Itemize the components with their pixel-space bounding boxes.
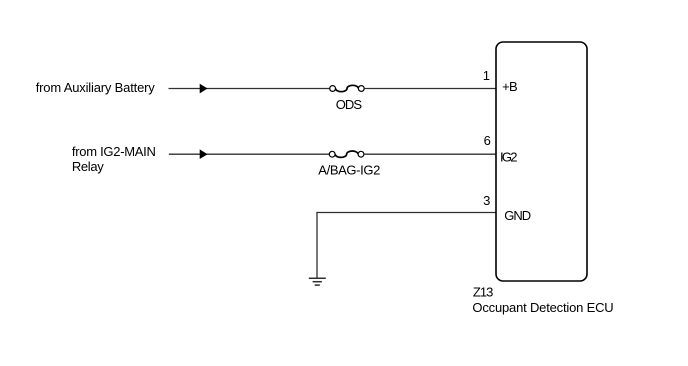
svg-text:Relay: Relay xyxy=(72,159,104,174)
fuse ODS xyxy=(330,85,364,91)
svg-text:GND: GND xyxy=(504,208,531,223)
svg-text:6: 6 xyxy=(484,133,491,148)
wire: ground horizontal run to pin 3 xyxy=(316,212,496,214)
fuse A/BAG-IG2 xyxy=(329,151,364,157)
arrow on +B feed wire xyxy=(200,84,207,93)
svg-text:from Auxiliary Battery: from Auxiliary Battery xyxy=(36,80,156,95)
ground symbol xyxy=(309,278,326,285)
svg-text:IG2: IG2 xyxy=(500,150,518,165)
svg-text:Z13: Z13 xyxy=(473,285,494,300)
wire: Auxiliary Battery feed to fuse ODS xyxy=(169,88,330,90)
svg-text:A/BAG-IG2: A/BAG-IG2 xyxy=(318,163,380,178)
wire: fuse ODS to pin 1 xyxy=(364,88,496,90)
arrow on IG2 feed wire xyxy=(200,150,207,159)
label "from IG2-MAIN Relay" xyxy=(72,144,156,174)
svg-text:from IG2-MAIN: from IG2-MAIN xyxy=(72,144,156,159)
svg-text:3: 3 xyxy=(483,193,490,208)
svg-text:1: 1 xyxy=(483,68,490,83)
wire: IG2-MAIN Relay feed to fuse A/BAG-IG2 xyxy=(169,153,329,155)
wire: ground vertical drop xyxy=(316,212,318,278)
ECU connector box Z13 xyxy=(496,42,587,281)
svg-text:ODS: ODS xyxy=(336,97,363,112)
wire: fuse A/BAG-IG2 to pin 6 xyxy=(364,153,496,155)
svg-text:Occupant Detection ECU: Occupant Detection ECU xyxy=(472,300,613,315)
svg-text:+B: +B xyxy=(502,79,518,94)
